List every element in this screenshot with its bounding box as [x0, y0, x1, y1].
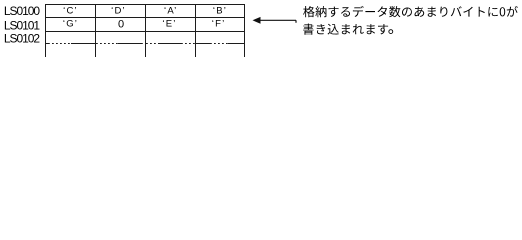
- svg-text:‘B’: ‘B’: [213, 6, 227, 17]
- svg-text:‘E’: ‘E’: [162, 19, 176, 30]
- svg-text:‘A’: ‘A’: [164, 6, 177, 17]
- svg-text:‘G’: ‘G’: [63, 19, 78, 30]
- svg-text:LS0102: LS0102: [4, 31, 41, 45]
- svg-text:LS0100: LS0100: [4, 4, 41, 18]
- svg-text:‘D’: ‘D’: [111, 6, 126, 17]
- svg-text:‘C’: ‘C’: [63, 6, 78, 17]
- svg-text:‘F’: ‘F’: [212, 19, 226, 30]
- svg-text:0: 0: [118, 19, 124, 31]
